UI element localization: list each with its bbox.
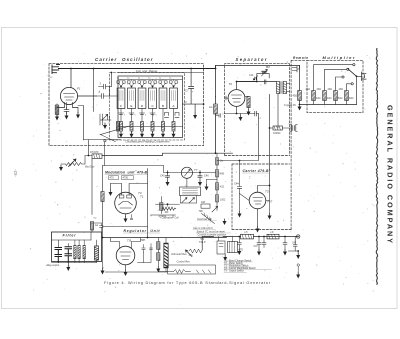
regulator output box	[168, 265, 216, 274]
svg-text:T3: T3	[265, 190, 269, 194]
svg-text:T7: T7	[194, 168, 198, 172]
coil bank box	[118, 76, 183, 138]
svg-text:499: 499	[220, 173, 225, 176]
svg-text:B: B	[162, 104, 164, 108]
capacitor C45 + gnd left of meter	[160, 171, 170, 187]
remote dashed divider	[291, 60, 307, 229]
capacitor mid	[138, 245, 151, 263]
wire cathode down	[225, 106, 259, 113]
wire carrier grid left	[239, 194, 241, 212]
capacitor C46 + gnd right of meter	[198, 171, 209, 187]
ground	[298, 105, 302, 111]
svg-text:+3: +3	[119, 137, 121, 139]
svg-text:2w: 2w	[220, 160, 223, 163]
svg-text:Crystal Flt: Crystal Flt	[284, 103, 296, 107]
ladder resistor R13	[328, 76, 345, 105]
wire secondary to box edge	[287, 84, 290, 92]
resistor bank-left	[116, 122, 119, 132]
inductor L5	[241, 230, 254, 239]
svg-text:D: D	[185, 100, 187, 104]
wire long vertical x269	[269, 95, 271, 170]
svg-text:422: 422	[220, 186, 225, 189]
ground	[193, 113, 197, 119]
wire transformer primary down	[277, 94, 279, 129]
svg-text:Mod Con: Mod Con	[85, 166, 95, 168]
meter M1	[181, 167, 197, 178]
wire remote feed vertical	[299, 66, 301, 91]
svg-text:5w: 5w	[94, 218, 97, 220]
wire bank top bus	[119, 79, 183, 81]
svg-text:Regulator Unit: Regulator Unit	[124, 229, 161, 233]
svg-text:C45: C45	[160, 175, 165, 178]
tall coil resistor x165.5	[164, 244, 168, 268]
wire top bus B+	[59, 68, 216, 70]
tube T3	[249, 190, 272, 209]
node bus-riser junction	[215, 68, 217, 70]
tube T2	[228, 82, 245, 106]
ground	[101, 269, 105, 275]
wire grid to bank	[78, 95, 97, 97]
wire blade to jack	[357, 76, 362, 104]
inductor L6	[267, 230, 279, 239]
wire tube top	[111, 238, 141, 248]
svg-text:1002: 1002	[220, 198, 226, 201]
wire tube bottom	[125, 265, 127, 270]
ground arrow left	[205, 185, 209, 191]
wire tube side to box	[266, 186, 270, 214]
wire long left vertical A	[91, 159, 93, 215]
wire to crystal	[270, 127, 292, 129]
wire tube cathode leads	[57, 103, 78, 117]
wire down from sep to carrier unit	[217, 114, 259, 161]
svg-text:Oscillator and Padding Condens: Oscillator and Padding Condensers	[126, 140, 171, 144]
svg-text:Carrier Oscillator: Carrier Oscillator	[95, 57, 153, 62]
ground	[55, 115, 59, 121]
wire second bus y164.5	[103, 165, 164, 167]
svg-text:40Ω: 40Ω	[349, 97, 354, 100]
slant resistor right	[199, 210, 215, 224]
wire bottom bus mod	[103, 226, 148, 228]
wire bus continues	[215, 97, 217, 154]
wire diagonal lead	[100, 134, 116, 142]
carrier unit dashed box	[232, 164, 292, 230]
shielded transformer box	[180, 178, 201, 195]
coil can A with switch S1f	[169, 78, 179, 139]
svg-text:C46: C46	[204, 175, 209, 178]
svg-text:C7: C7	[185, 89, 189, 93]
wire feed column x93	[93, 69, 95, 112]
wire grid cap left	[225, 96, 229, 100]
svg-text:-52-: -52-	[13, 169, 18, 177]
svg-text:T1: T1	[140, 195, 144, 199]
trimmer B4	[262, 65, 271, 76]
capacitor in carrier	[234, 160, 249, 201]
ground	[238, 212, 242, 218]
svg-text:40Ω: 40Ω	[317, 88, 322, 91]
svg-text:E: E	[131, 104, 133, 108]
wire to bottom bus	[299, 101, 301, 105]
output jack J2	[362, 72, 367, 81]
wire feed bus y155.5	[102, 153, 233, 155]
ladder resistor R12	[317, 68, 349, 104]
resistor R1 cathode	[55, 105, 59, 115]
wire right stub down	[102, 238, 104, 269]
svg-text:+1: +1	[140, 137, 142, 139]
ground	[239, 115, 243, 121]
ground	[65, 114, 69, 120]
svg-text:Remote: Remote	[293, 56, 308, 60]
svg-text:4700: 4700	[123, 177, 129, 180]
resistor 4w on vertical A	[90, 222, 93, 231]
ladder resistor R14	[339, 83, 354, 105]
capacitor C1	[64, 108, 69, 114]
svg-text:Figure 4. Wiring Diagram for: Figure 4. Wiring Diagram for Type 605-B …	[104, 280, 271, 285]
svg-text:+1: +1	[172, 137, 174, 139]
wire tube stem	[70, 69, 72, 88]
svg-text:T21.P: T21.P	[199, 241, 206, 244]
wire ground return	[289, 251, 299, 253]
capacitor pair 2	[65, 247, 72, 263]
scan speckle (decorative)	[13, 35, 394, 305]
ground	[109, 190, 113, 196]
big arrow down	[223, 219, 227, 225]
boxed label 4700	[122, 176, 134, 180]
svg-text:T##: T##	[199, 210, 204, 213]
wire risers left of bank	[110, 73, 119, 97]
svg-text:C: C	[151, 104, 153, 108]
svg-text:GENERAL RADIO COMPANY: GENERAL RADIO COMPANY	[386, 105, 395, 244]
svg-text:C14: C14	[249, 74, 254, 77]
svg-text:5: 5	[156, 115, 157, 117]
capacitor series on bus	[264, 80, 266, 84]
coil can B with switch S1e	[159, 78, 169, 139]
zigzag resistor to ground	[59, 156, 95, 172]
wire reg top bus	[103, 237, 227, 239]
svg-text:P1T: P1T	[268, 200, 273, 204]
svg-text:5: 5	[145, 115, 146, 117]
trimmer cluster lower-left	[100, 114, 111, 129]
wire inner feed line	[118, 72, 204, 74]
tall resistor f4	[95, 246, 99, 260]
capacitor c-out	[293, 237, 297, 252]
wire plate bus	[237, 81, 277, 83]
trimmer reg	[150, 244, 153, 263]
wire lower bank bus	[119, 126, 183, 128]
svg-text:Overload dial: Overload dial	[197, 218, 212, 221]
wire B+ riser	[216, 66, 300, 69]
svg-text:D: D	[141, 104, 143, 108]
svg-text:C4T: C4T	[292, 243, 297, 245]
svg-text:F1: F1	[77, 87, 81, 91]
output terminal ring	[297, 235, 300, 238]
wire plate to top	[237, 82, 257, 90]
ground	[156, 267, 160, 273]
svg-text:1000Ω: 1000Ω	[273, 132, 281, 135]
ground	[247, 110, 251, 116]
zigzag left of relay	[189, 249, 202, 253]
wire trimmer loop	[257, 74, 269, 82]
boxed label 470/220	[109, 176, 119, 180]
tube T5	[116, 239, 145, 265]
ground	[256, 227, 260, 233]
transformer T-sep	[277, 82, 287, 94]
wire coil bottom	[159, 268, 174, 272]
trimmer wiper	[212, 206, 218, 212]
remote jack	[292, 66, 300, 73]
box + label left	[201, 201, 210, 208]
capacitor beside vertical A	[92, 223, 103, 232]
wire tube bottom	[125, 214, 127, 217]
svg-text:40Ω: 40Ω	[339, 88, 344, 91]
svg-text:C47: C47	[254, 246, 259, 248]
wire left drop w ground	[110, 184, 112, 191]
ground lower with ring	[296, 264, 300, 279]
resistor cathode T2	[245, 96, 249, 98]
multiplier dashed box	[307, 60, 363, 112]
trimmer pots below box	[182, 198, 187, 203]
tube T4	[115, 191, 144, 214]
wire main vertical bus	[215, 66, 217, 97]
wire drop to DB bus	[104, 142, 106, 166]
svg-text:470/479: 470/479	[90, 152, 99, 154]
coil can C with switch S1d	[148, 78, 156, 139]
svg-text:443: 443	[189, 254, 194, 257]
capacitor C7 output	[183, 68, 205, 113]
svg-text:Filter: Filter	[63, 234, 77, 238]
zigzag bottom right	[174, 270, 211, 274]
crystal Y1	[290, 125, 297, 132]
capacitor c-lp4	[283, 236, 287, 256]
wire main line	[202, 237, 297, 251]
resistor stack x158	[157, 242, 160, 250]
ground big	[66, 265, 70, 271]
trimmer capacitor C14	[249, 74, 258, 80]
capacitor pair 1	[55, 248, 62, 263]
resistor 1000ohm	[273, 126, 283, 135]
capacitor C3	[99, 82, 112, 89]
svg-text:Voltmeter Res: Voltmeter Res	[171, 253, 187, 256]
ladder resistor R11	[306, 64, 356, 105]
wire cathode down	[257, 209, 259, 227]
resistor stack on x217	[216, 158, 219, 166]
capacitor c-lp3	[262, 236, 266, 248]
svg-text:40Ω: 40Ω	[327, 97, 332, 100]
resistor on vertical B	[101, 192, 104, 202]
svg-text:40Ω: 40Ω	[316, 97, 321, 100]
separator dashed box	[225, 64, 290, 156]
coil can D with switch S1c	[138, 78, 146, 139]
ground	[76, 113, 80, 119]
wire long left vertical B	[102, 166, 104, 238]
wire multiplier bottom bus	[300, 104, 357, 106]
capacitor c-lp2	[254, 236, 262, 256]
svg-text:470: 470	[110, 177, 115, 180]
input connector J1	[52, 65, 60, 74]
svg-text:T#P: T#P	[141, 239, 146, 242]
resistor f3	[83, 246, 86, 259]
svg-text:Control Res: Control Res	[177, 261, 191, 264]
wire relay ground	[224, 254, 226, 255]
svg-text:Separator: Separator	[236, 57, 267, 62]
coil can E with switch S1b	[127, 78, 135, 139]
node connector bubble	[104, 140, 106, 142]
svg-text:+Reg output: +Reg output	[46, 264, 60, 267]
resistor R6 on bus	[214, 104, 218, 114]
coil cans A-F with switch contacts and padding trimmers	[116, 78, 182, 139]
coil can F with switch S1a	[117, 78, 125, 139]
wire cathode drop	[78, 106, 84, 140]
svg-text:C4#: C4#	[234, 183, 239, 186]
svg-text:Modulation unit 479-B: Modulation unit 479-B	[105, 171, 148, 175]
svg-text:F: F	[120, 104, 122, 108]
node feed dot	[111, 72, 113, 74]
resistor f2	[78, 246, 81, 259]
coil bank inner dashed enclosure	[110, 73, 185, 141]
svg-text:1##: 1##	[201, 201, 206, 204]
wire tube top leads	[111, 184, 148, 196]
switch blade S-mult	[348, 69, 357, 76]
wire return bus under bank	[84, 139, 121, 141]
svg-text:5: 5	[135, 115, 136, 117]
resistor R-mult-in	[298, 91, 302, 101]
ground	[124, 217, 128, 223]
svg-text:40Ω: 40Ω	[306, 88, 311, 91]
svg-text:T2: T2	[229, 82, 233, 86]
capacitor C2	[97, 90, 110, 99]
svg-text:+2: +2	[130, 137, 132, 139]
wire inner top	[52, 240, 92, 256]
resistor f1	[74, 246, 77, 259]
capacitor beside tube	[130, 215, 132, 220]
node bus-tube junction	[70, 68, 72, 70]
relay frame box	[217, 237, 225, 255]
svg-text:Carrier 479-B: Carrier 479-B	[243, 169, 270, 173]
wire right vertical	[147, 169, 149, 238]
svg-text:4w: 4w	[209, 105, 212, 109]
svg-text:+0: +0	[151, 137, 153, 139]
carrier oscillator dashed box	[49, 64, 204, 146]
tube V1	[60, 87, 80, 105]
ground	[268, 214, 272, 220]
svg-text:4w: 4w	[95, 224, 98, 227]
filter box	[52, 232, 102, 262]
resistor right of tube	[160, 203, 163, 211]
transformer box striped	[228, 237, 238, 253]
svg-text:40Ω: 40Ω	[293, 95, 298, 98]
wire bottom collect	[52, 263, 97, 266]
resistor zigzag 400	[151, 203, 180, 219]
resistor 470	[90, 152, 102, 158]
svg-text:A: A	[173, 104, 175, 108]
svg-text:+ Calibration Coil: + Calibration Coil	[160, 217, 179, 220]
ground	[296, 253, 300, 259]
capacitor stub right of bus	[216, 114, 221, 118]
deckle edge wavy line	[376, 48, 377, 285]
wire carrier tube plate	[258, 170, 270, 193]
wire meter bus	[164, 166, 216, 173]
svg-text:5: 5	[124, 115, 125, 117]
wire heater bus	[105, 271, 168, 273]
wire band switch diagonal	[101, 126, 130, 135]
ground	[124, 270, 128, 276]
wire drop to grid bus	[88, 140, 90, 156]
capacitor c-lp1	[237, 236, 241, 255]
svg-text:40Ω: 40Ω	[328, 88, 333, 91]
capacitor on cathode line	[255, 111, 256, 116]
